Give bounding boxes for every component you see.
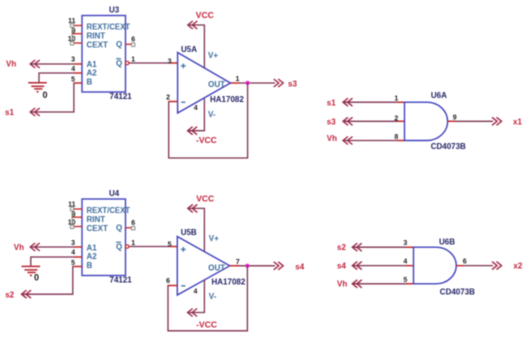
AND gate U6B body bbox=[414, 247, 457, 284]
wire U6B pin 6 output to x2 bbox=[456, 265, 493, 267]
svg-text:4: 4 bbox=[403, 259, 407, 266]
wire s1 to U6A pin 1 bbox=[343, 101, 404, 103]
U3 Q-bar inversion bubble pin 1 bbox=[126, 61, 129, 64]
U6A pin 9 stub bbox=[448, 120, 456, 122]
svg-text:REXT/CEXT: REXT/CEXT bbox=[87, 22, 131, 31]
wire -VCC to U5A V- pin bbox=[188, 99, 205, 131]
svg-text:CD4073B: CD4073B bbox=[431, 142, 466, 151]
svg-text:A1: A1 bbox=[87, 243, 98, 252]
svg-text:s2: s2 bbox=[5, 291, 14, 300]
svg-text:Vh: Vh bbox=[337, 279, 347, 288]
svg-text:8: 8 bbox=[394, 134, 398, 141]
svg-text:B: B bbox=[87, 78, 93, 87]
svg-text:V-: V- bbox=[208, 110, 216, 119]
U4 Q-bar inversion bubble pin 1 bbox=[126, 245, 129, 248]
svg-text:VCC: VCC bbox=[196, 10, 214, 20]
wire U3 pin5 B to s1 bbox=[31, 83, 83, 112]
svg-text:x2: x2 bbox=[513, 262, 522, 271]
wire U4 Q-bar to U5B non-inverting input bbox=[129, 246, 177, 248]
U5B minus sign bbox=[181, 285, 185, 287]
U4 pin 11 stub bbox=[72, 208, 82, 210]
wire U5B output to s4 bbox=[230, 265, 275, 267]
svg-text:1: 1 bbox=[131, 240, 135, 247]
svg-text:5: 5 bbox=[168, 241, 172, 248]
off-page connector arrow -VCC (U5A) bbox=[188, 127, 198, 135]
svg-text:Vh: Vh bbox=[327, 134, 337, 143]
svg-text:A2: A2 bbox=[87, 69, 98, 78]
off-page connector arrow VCC (U5A) bbox=[188, 21, 198, 29]
IC U4 74121 body bbox=[82, 199, 126, 276]
ground symbol 0 (U4) bbox=[22, 266, 41, 272]
svg-text:A1: A1 bbox=[87, 60, 98, 69]
svg-text:2: 2 bbox=[166, 94, 170, 101]
svg-text:x1: x1 bbox=[513, 117, 522, 126]
off-page connector arrow s1 (U6A) bbox=[343, 98, 353, 106]
svg-text:U6A: U6A bbox=[431, 91, 447, 100]
off-page connector arrow s3 bbox=[274, 79, 284, 87]
U6A pin 8 stub bbox=[397, 140, 405, 142]
tie wire joining U3 pins 11,9,10 bbox=[71, 26, 73, 44]
svg-text:0: 0 bbox=[34, 272, 39, 282]
U4 pin 5 stub bbox=[74, 266, 82, 268]
feedback wire U5B output to inverting input bbox=[168, 266, 247, 331]
svg-text:HA17082: HA17082 bbox=[210, 95, 244, 104]
wire VCC to U5B V+ pin bbox=[188, 208, 204, 251]
svg-text:Vh: Vh bbox=[6, 60, 16, 69]
svg-text:CEXT: CEXT bbox=[87, 41, 108, 50]
U4 pin 3 stub bbox=[74, 246, 82, 248]
svg-text:HA17082: HA17082 bbox=[212, 277, 246, 286]
off-page connector arrow x2 bbox=[492, 262, 502, 270]
open terminal square at U3 pin 11 bbox=[70, 24, 73, 27]
off-page connector arrow Vh (U6B) bbox=[352, 280, 362, 288]
off-page connector arrow Vh (U6A) bbox=[343, 137, 353, 145]
U5B pin 7 output stub bbox=[230, 265, 240, 267]
svg-text:Q: Q bbox=[116, 223, 122, 232]
svg-text:U4: U4 bbox=[109, 189, 120, 198]
wire s3 to U6A pin 2 bbox=[343, 120, 404, 122]
svg-text:74121: 74121 bbox=[110, 276, 133, 285]
wire U3 pin4 A2 to ground bbox=[39, 73, 82, 82]
svg-text:CD4073B: CD4073B bbox=[440, 287, 475, 296]
U3 pin 3 stub bbox=[74, 63, 82, 65]
svg-text:3: 3 bbox=[168, 58, 172, 65]
svg-text:s4: s4 bbox=[295, 263, 304, 272]
off-page connector arrow Vh (U4) bbox=[30, 243, 40, 251]
svg-text:RINT: RINT bbox=[87, 215, 106, 224]
svg-text:2: 2 bbox=[394, 115, 398, 122]
U5A plus sign bbox=[181, 64, 186, 69]
svg-text:REXT/CEXT: REXT/CEXT bbox=[87, 206, 131, 215]
svg-text:4: 4 bbox=[194, 288, 198, 295]
off-page connector arrow -VCC (U5B) bbox=[188, 309, 198, 317]
wire Vh to U6B pin 5 bbox=[353, 283, 414, 285]
wire U4 pin5 B to s2 bbox=[22, 267, 82, 295]
wire U5A output to s3 bbox=[231, 82, 276, 84]
U4 pin 4 stub bbox=[74, 256, 82, 258]
U6B pin 5 stub bbox=[406, 283, 414, 285]
svg-text:Q: Q bbox=[116, 59, 122, 68]
wire VCC to U5A V+ pin bbox=[188, 25, 204, 68]
svg-text:U5B: U5B bbox=[181, 228, 197, 237]
ground symbol 0 bbox=[28, 83, 47, 89]
svg-text:U3: U3 bbox=[109, 5, 120, 14]
svg-text:U5A: U5A bbox=[181, 45, 197, 54]
wire s4 to U6B pin 4 bbox=[353, 265, 414, 267]
op-amp U5A body bbox=[178, 53, 231, 114]
svg-text:CEXT: CEXT bbox=[87, 224, 108, 233]
svg-text:s4: s4 bbox=[337, 261, 346, 270]
svg-text:-VCC: -VCC bbox=[196, 319, 217, 329]
off-page connector arrow s4 (U6B) bbox=[352, 262, 362, 270]
svg-text:VCC: VCC bbox=[196, 193, 214, 203]
open terminal square at U3 pin 10 bbox=[70, 42, 73, 45]
ground dot bbox=[37, 91, 39, 93]
svg-text:OUT: OUT bbox=[208, 80, 225, 89]
IC U3 74121 body bbox=[82, 16, 126, 93]
svg-text:A2: A2 bbox=[87, 252, 98, 261]
svg-text:4: 4 bbox=[194, 105, 198, 112]
wire U4 pin4 A2 to ground bbox=[31, 257, 82, 266]
U5A pin 1 output stub bbox=[231, 82, 240, 84]
U6B pin 6 output stub bbox=[456, 265, 463, 267]
svg-text:7: 7 bbox=[236, 259, 240, 266]
off-page connector arrow x1 bbox=[492, 117, 502, 125]
svg-text:6: 6 bbox=[166, 278, 170, 285]
U6A pin 1 stub bbox=[397, 101, 405, 103]
U5B plus sign bbox=[181, 247, 186, 252]
off-page connector arrow s1 bbox=[30, 108, 40, 116]
U3 pin 10 stub bbox=[72, 42, 82, 44]
svg-text:5: 5 bbox=[403, 277, 407, 284]
svg-text:6: 6 bbox=[131, 220, 135, 227]
svg-text:1: 1 bbox=[394, 95, 398, 102]
junction dot at U5B output node bbox=[245, 264, 249, 268]
svg-text:Q: Q bbox=[116, 40, 122, 49]
svg-text:U6B: U6B bbox=[439, 237, 455, 246]
off-page connector arrow s2 (U6B) bbox=[352, 243, 362, 251]
U6B pin 4 stub bbox=[406, 265, 414, 267]
wire Vh to U4 pin3 A1 bbox=[31, 246, 83, 248]
off-page connector arrow VCC (U5B) bbox=[188, 204, 198, 212]
tie wire joining U4 pins 11,9,10 bbox=[71, 209, 73, 227]
svg-text:s1: s1 bbox=[327, 99, 336, 108]
U5A minus sign bbox=[181, 101, 185, 103]
ground dot (U4) bbox=[30, 274, 32, 276]
U3 pin 9 stub bbox=[72, 33, 82, 35]
U3 pin 5 stub bbox=[74, 82, 82, 84]
svg-text:74121: 74121 bbox=[110, 92, 133, 101]
U3 pin name Q-bar bbox=[116, 59, 122, 68]
svg-text:6: 6 bbox=[131, 36, 135, 43]
junction dot at U5A output node bbox=[246, 81, 250, 85]
U5A pin 2 stub bbox=[169, 101, 178, 103]
svg-text:3: 3 bbox=[71, 56, 75, 63]
svg-text:3: 3 bbox=[403, 240, 407, 247]
svg-text:V+: V+ bbox=[209, 234, 219, 243]
U6B pin 3 stub bbox=[406, 246, 414, 248]
wire Vh to U6A pin 8 bbox=[343, 140, 404, 142]
svg-text:4: 4 bbox=[71, 250, 75, 257]
AND gate U6A body bbox=[405, 102, 448, 140]
svg-text:s3: s3 bbox=[288, 79, 297, 88]
op-amp U5B body bbox=[177, 237, 230, 296]
off-page connector arrow s4 bbox=[274, 262, 284, 270]
svg-text:V-: V- bbox=[209, 292, 217, 301]
svg-text:3: 3 bbox=[71, 240, 75, 247]
open terminal square at U4 pin 6 bbox=[132, 227, 135, 230]
svg-text:-VCC: -VCC bbox=[196, 135, 217, 145]
U5A pin 3 stub bbox=[171, 62, 178, 64]
open terminal square at U4 pin 11 bbox=[70, 207, 73, 210]
feedback wire U5A output to inverting input bbox=[169, 83, 248, 158]
off-page connector arrow s2 bbox=[22, 290, 32, 298]
wire Vh to U3 pin3 A1 bbox=[31, 63, 83, 65]
svg-text:4: 4 bbox=[71, 66, 75, 73]
U3 pin 4 stub bbox=[74, 72, 82, 74]
svg-text:0: 0 bbox=[43, 90, 48, 100]
off-page connector arrow Vh bbox=[30, 60, 40, 68]
U4 pin 9 stub bbox=[72, 216, 82, 218]
off-page connector arrow s3 (U6A) bbox=[343, 117, 353, 125]
wire U6A pin 9 output to x1 bbox=[448, 120, 493, 122]
open terminal square at U3 pin 6 bbox=[132, 43, 135, 46]
U5B pin 6 stub bbox=[168, 285, 177, 287]
wire U3 Q-bar to U5A non-inverting input bbox=[129, 62, 178, 64]
svg-text:Q: Q bbox=[116, 243, 122, 252]
svg-text:s3: s3 bbox=[327, 118, 336, 127]
svg-text:s2: s2 bbox=[337, 243, 346, 252]
svg-text:OUT: OUT bbox=[208, 263, 225, 272]
U3 pin 11 stub bbox=[72, 25, 82, 27]
svg-text:B: B bbox=[87, 261, 93, 270]
svg-text:V+: V+ bbox=[208, 51, 218, 60]
svg-text:6: 6 bbox=[463, 259, 467, 266]
svg-text:RINT: RINT bbox=[87, 31, 106, 40]
svg-text:1: 1 bbox=[236, 76, 240, 83]
U4 pin 6 stub bbox=[126, 227, 132, 229]
U4 pin name Q-bar bbox=[116, 242, 122, 251]
U5B pin 5 stub bbox=[171, 246, 178, 248]
open terminal square at U4 pin 10 bbox=[70, 225, 73, 228]
U3 pin 6 stub bbox=[126, 43, 132, 45]
U6A pin 2 stub bbox=[397, 120, 405, 122]
svg-text:Vh: Vh bbox=[14, 243, 24, 252]
U4 pin 10 stub bbox=[72, 226, 82, 228]
svg-text:9: 9 bbox=[453, 114, 457, 121]
wire -VCC to U5B V- pin bbox=[188, 280, 205, 313]
wire s2 to U6B pin 3 bbox=[353, 246, 414, 248]
svg-text:s1: s1 bbox=[5, 108, 14, 117]
